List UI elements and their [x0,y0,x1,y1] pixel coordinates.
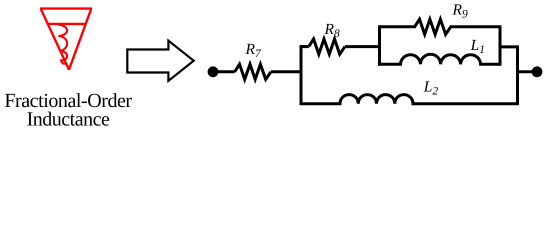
node: left terminal dot [208,66,219,77]
right slant [69,9,91,70]
left slant [41,9,69,70]
box top edge with resistor R9 [380,19,501,34]
coil [58,25,67,65]
top bar [40,7,92,9]
node: left terminal wire [213,70,235,73]
fractional-order inductor symbol (red triangle) [40,9,92,70]
box left edge [378,25,381,66]
svg-text:Inductance: Inductance [27,109,110,131]
wire box to right junction [500,45,518,48]
resistor R7 [235,64,271,79]
wire R8 to box [345,45,380,48]
circuit [213,19,537,105]
inductor L2 on bottom branch [301,95,518,104]
labels [245,1,485,97]
wire: right vertical junction [516,45,519,105]
box right edge [499,25,502,66]
box bottom edge with inductor L1 [380,54,501,64]
wire: left vertical junction [300,45,303,105]
node: right terminal dot [532,66,543,77]
wire R7 to left junction [271,70,301,73]
wire to right terminal [518,70,538,73]
block arrow [127,41,193,81]
inner bar [47,23,86,25]
resistor R8 [309,39,345,54]
wire: top branch lead [301,45,309,48]
caption text [4,90,132,130]
